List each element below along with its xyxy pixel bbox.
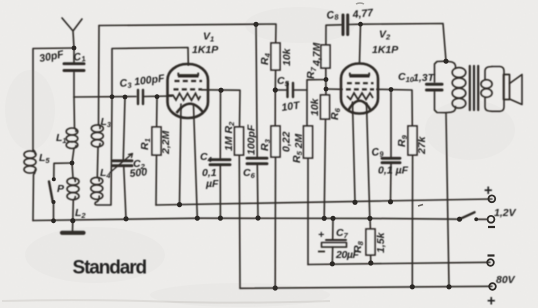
svg-text:+: + [318, 229, 324, 241]
svg-text:10k: 10k [281, 47, 293, 66]
svg-text:µF: µF [205, 178, 219, 190]
svg-text:80V: 80V [496, 274, 516, 286]
svg-text:1K1P: 1K1P [192, 44, 219, 56]
svg-text:100pF: 100pF [246, 124, 258, 155]
svg-text:27k: 27k [416, 135, 428, 155]
svg-text:+: + [487, 294, 495, 308]
svg-text:1,3T: 1,3T [413, 72, 436, 84]
svg-text:4,7M: 4,7M [311, 42, 323, 67]
svg-text:500: 500 [129, 166, 148, 180]
svg-text:0,22: 0,22 [281, 131, 293, 152]
svg-text:2,2M: 2,2M [160, 130, 172, 155]
svg-text:4,77: 4,77 [351, 7, 375, 21]
svg-text:Standard: Standard [73, 258, 147, 279]
svg-text:R5 2M: R5 2M [291, 133, 305, 163]
svg-text:1K1P: 1K1P [372, 44, 399, 56]
svg-text:P: P [57, 183, 65, 195]
svg-text:+: + [484, 183, 492, 199]
svg-text:10k: 10k [309, 97, 321, 116]
svg-text:1,2V: 1,2V [494, 207, 517, 219]
svg-text:1,5k: 1,5k [375, 231, 387, 253]
